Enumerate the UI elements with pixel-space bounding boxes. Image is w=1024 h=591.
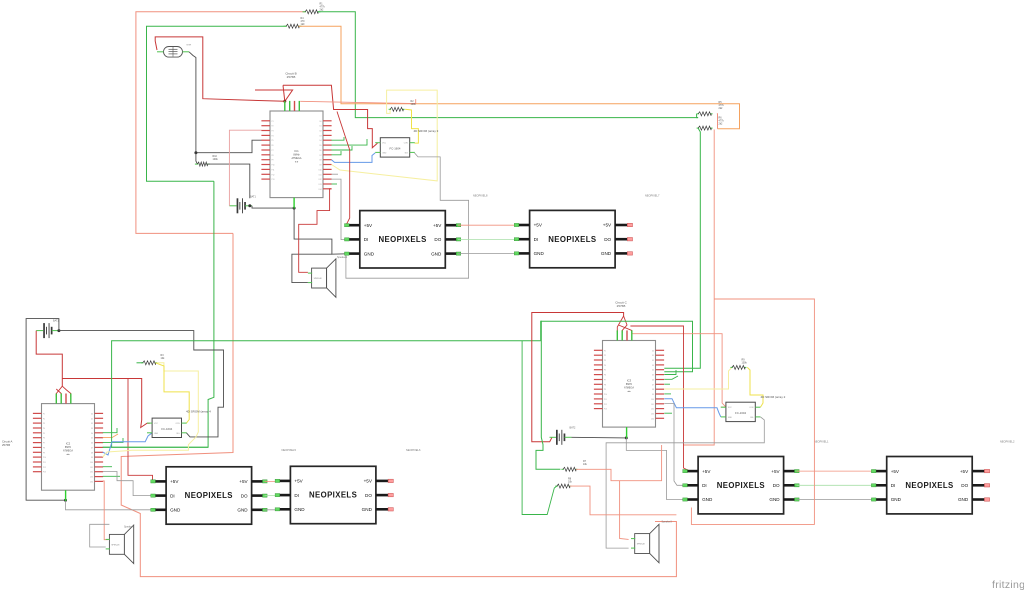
wire red IC2 area to module U3 VCC <box>62 379 150 428</box>
svg-text:MTR: MTR <box>187 45 192 47</box>
svg-text:P12: P12 <box>604 404 607 406</box>
svg-text:GND: GND <box>702 497 713 502</box>
svg-text:P10: P10 <box>272 165 275 167</box>
svg-text:D11: D11 <box>90 467 93 469</box>
svg-text:GND: GND <box>534 251 545 256</box>
svg-text:NEOPIXEL5: NEOPIXEL5 <box>282 448 297 452</box>
svg-text:SPKR-08: SPKR-08 <box>111 544 119 546</box>
svg-text:ATMEGA: ATMEGA <box>63 449 73 452</box>
wire red crossing diagonals at IC1 top pins <box>283 85 285 101</box>
svg-text:P3: P3 <box>272 131 274 133</box>
svg-text:P10: P10 <box>43 457 46 459</box>
svg-text:+5V: +5V <box>891 469 900 474</box>
svg-text:GND: GND <box>728 417 733 419</box>
svg-text:IC2: IC2 <box>66 441 71 445</box>
svg-text:DO: DO <box>365 493 372 498</box>
wires NEOPIXELS chain 1-2 <box>458 224 529 226</box>
wire salmon long vertical right side <box>684 130 715 446</box>
NEOPIXELS N4 <box>290 466 376 523</box>
svg-text:D2: D2 <box>652 360 654 362</box>
svg-text:2576B: 2576B <box>287 75 296 79</box>
svg-text:D0: D0 <box>91 413 93 415</box>
svg-text:ATMEGA: ATMEGA <box>624 386 634 389</box>
svg-text:D6: D6 <box>319 150 321 152</box>
svg-text:DO: DO <box>434 237 441 242</box>
svg-text:FC-1604: FC-1604 <box>390 146 401 150</box>
svg-text:DI: DI <box>891 483 896 488</box>
svg-text:D11: D11 <box>319 174 322 176</box>
wire green mid-long into R5 <box>697 114 699 118</box>
svg-text:GND: GND <box>154 433 159 435</box>
resistor R8 <box>555 485 558 487</box>
NEOPIXELS N6 <box>887 457 973 514</box>
svg-text:D10: D10 <box>319 169 322 171</box>
wire green IC1 right spurs <box>332 137 345 140</box>
svg-text:+5V: +5V <box>771 469 780 474</box>
svg-text:GND: GND <box>170 508 181 513</box>
resistor R10 <box>195 163 199 165</box>
svg-text:Speaker3: Speaker3 <box>662 521 673 524</box>
wire gray from R10 to battery BAT1 <box>207 164 249 198</box>
wire black battery BAT2 to IC3 ground pin <box>572 436 627 439</box>
svg-text:DI: DI <box>364 237 369 242</box>
wire red IC1 to speaker SP1 <box>299 189 332 272</box>
wire yellow IC3 to resistor R9 <box>664 367 732 389</box>
svg-text:P6: P6 <box>604 375 606 377</box>
svg-text:D1: D1 <box>91 418 93 420</box>
resistor R7 <box>561 468 564 470</box>
svg-text:P7: P7 <box>272 150 274 152</box>
wire blue IC1 to module U2 <box>332 153 376 163</box>
svg-text:DO: DO <box>773 483 780 488</box>
wire salmon loop around NEOPIXELS5 <box>691 299 814 524</box>
svg-text:P8: P8 <box>604 384 606 386</box>
wire gray left border to NEOPIXELS3 GND <box>66 500 152 510</box>
svg-text:2k2: 2k2 <box>320 9 325 12</box>
wire red IC3 top row right <box>630 326 690 471</box>
resistor R5 right pair top <box>697 113 700 115</box>
svg-text:DI: DI <box>294 493 299 498</box>
svg-text:+5V: +5V <box>702 469 711 474</box>
svg-text:D14: D14 <box>90 481 93 483</box>
svg-text:2576B: 2576B <box>2 443 10 447</box>
svg-text:NEOPIXELS: NEOPIXELS <box>309 491 357 500</box>
wire gray module U5 SIG to speaker SP3 <box>606 417 764 548</box>
speaker SP2 <box>109 534 124 554</box>
svg-text:2576B: 2576B <box>617 304 626 308</box>
svg-text:D2: D2 <box>319 131 321 133</box>
svg-text:CON: CON <box>749 407 754 409</box>
svg-text:BAT1: BAT1 <box>250 196 256 199</box>
module U2 <box>380 138 409 157</box>
wire yellow R2 to module CON <box>405 109 418 143</box>
svg-text:P13: P13 <box>272 179 275 181</box>
svg-text:D0: D0 <box>319 121 321 123</box>
svg-text:D3: D3 <box>91 428 93 430</box>
wire yellow R9 to module U5 CON <box>747 367 763 407</box>
svg-text:D5: D5 <box>91 438 93 440</box>
svg-text:D5: D5 <box>319 145 321 147</box>
svg-text:2k2: 2k2 <box>719 123 724 126</box>
svg-text:P6: P6 <box>272 145 274 147</box>
wire green long from R6 down to IC3 <box>664 128 700 368</box>
svg-text:fritzing: fritzing <box>992 579 1024 591</box>
svg-text:P1: P1 <box>43 413 45 415</box>
svg-text:NEOPIXEL6: NEOPIXEL6 <box>406 448 421 452</box>
NEOPIXELS N5 <box>698 457 784 514</box>
svg-text:D10: D10 <box>90 462 93 464</box>
svg-text:4D SROM (array 2: 4D SROM (array 2 <box>761 395 786 399</box>
svg-text:P11: P11 <box>43 462 46 464</box>
svg-text:NEOPIXELS: NEOPIXELS <box>185 491 233 500</box>
svg-text:4D SROM (array 3: 4D SROM (array 3 <box>414 129 439 133</box>
resistor R9 <box>730 366 733 368</box>
svg-text:P9: P9 <box>272 160 274 162</box>
resistor R2 <box>389 108 392 110</box>
svg-text:+5V: +5V <box>960 469 969 474</box>
svg-text:FC-1604: FC-1604 <box>161 427 172 431</box>
svg-text:100k: 100k <box>213 158 219 161</box>
wire black ground net to speaker and NEOPIXELS GND <box>294 208 346 254</box>
wire green loop up to cross link <box>112 341 541 447</box>
svg-text:ATMEGA: ATMEGA <box>292 157 302 160</box>
svg-text:◄►: ◄► <box>627 390 631 393</box>
svg-text:D12: D12 <box>319 179 322 181</box>
wire yellow IC1 sloped to module net <box>332 90 438 181</box>
svg-text:DO: DO <box>604 237 611 242</box>
resistor R1 <box>303 11 307 13</box>
svg-text:Speaker2: Speaker2 <box>124 526 135 529</box>
svg-text:P2: P2 <box>604 355 606 357</box>
svg-text:FC-1604: FC-1604 <box>735 411 746 415</box>
wire salmon long from IC1 top to right resistor pair <box>300 99 416 104</box>
wire black battery BAT1 to IC1 ground pin <box>252 206 294 208</box>
svg-text:P11: P11 <box>272 169 275 171</box>
svg-text:D9: D9 <box>91 457 93 459</box>
wire salmon IC3 top to module U5 VCC <box>633 334 726 407</box>
wire orange R1 feed from left edge <box>136 12 305 234</box>
svg-text:100k: 100k <box>411 103 417 106</box>
svg-text:D2: D2 <box>91 423 93 425</box>
wire black from motor to IC1 pin <box>189 52 262 153</box>
svg-text:P7: P7 <box>604 380 606 382</box>
wire orange R5 to R6 link <box>716 114 719 129</box>
svg-text:D4: D4 <box>91 433 93 435</box>
svg-text:Speaker1: Speaker1 <box>337 256 348 259</box>
wire yellow R3 to module U3 CON <box>155 363 189 423</box>
svg-text:DI: DI <box>702 483 707 488</box>
svg-text:+5V: +5V <box>603 223 612 228</box>
svg-text:D0: D0 <box>652 350 654 352</box>
svg-text:NEOPIXEL7: NEOPIXEL7 <box>645 194 660 198</box>
svg-text:P3: P3 <box>43 423 45 425</box>
svg-text:D11: D11 <box>651 404 654 406</box>
wire green R4 feed from left edge <box>147 26 287 181</box>
motor M1 <box>164 47 183 58</box>
wire red crossing diagonals at IC2 top pins <box>56 386 62 397</box>
wire red to NEOPIXELS1 +5V <box>337 112 350 226</box>
wires NEOPIXELS chain 5-6 <box>797 470 886 472</box>
svg-text:D1: D1 <box>652 355 654 357</box>
svg-text:IC1: IC1 <box>294 149 299 153</box>
wire green IC3 right spurs <box>664 370 676 375</box>
battery BAT3 <box>43 323 45 338</box>
svg-text:P5: P5 <box>272 140 274 142</box>
svg-text:+5V: +5V <box>170 479 179 484</box>
resistor R6 right pair bottom <box>697 127 700 129</box>
svg-text:P12: P12 <box>43 467 46 469</box>
motor M1 loop red wire <box>155 37 285 101</box>
svg-text:CON: CON <box>404 143 409 145</box>
svg-text:GND: GND <box>294 507 305 512</box>
svg-text:D3: D3 <box>319 135 321 137</box>
svg-text:+5V: +5V <box>239 479 248 484</box>
svg-text:NEOPIXELS: NEOPIXELS <box>378 235 426 244</box>
svg-text:NEOPIXEL2: NEOPIXEL2 <box>1000 439 1015 443</box>
svg-text:+5V: +5V <box>433 223 442 228</box>
svg-text:DO: DO <box>241 493 248 498</box>
svg-text:◄►: ◄► <box>66 453 70 456</box>
wire orange from R4 to right resistors <box>299 26 740 129</box>
wire red battery BAT3 to IC2 top <box>36 331 62 387</box>
svg-text:P13: P13 <box>604 409 607 411</box>
svg-text:D4: D4 <box>652 370 654 372</box>
svg-text:GND: GND <box>601 251 612 256</box>
wire gray IC2 to NEOPIXELS3 DI <box>103 472 152 496</box>
svg-text:P3: P3 <box>604 360 606 362</box>
svg-text:D6: D6 <box>91 443 93 445</box>
wire red loop around IC3 <box>532 313 624 442</box>
svg-text:GND: GND <box>891 497 902 502</box>
svg-text:NEOPIXELS: NEOPIXELS <box>548 235 596 244</box>
svg-text:D13: D13 <box>319 184 322 186</box>
svg-text:D9: D9 <box>319 165 321 167</box>
svg-text:P10: P10 <box>604 394 607 396</box>
resistor R3 <box>141 362 144 364</box>
svg-text:D7: D7 <box>319 155 321 157</box>
svg-text:P11: P11 <box>604 399 607 401</box>
wire black battery BAT3 left border to IC2 ground <box>26 319 65 501</box>
svg-text:NEOPIXEL8: NEOPIXEL8 <box>473 194 488 198</box>
wire gray ground to NEOPIXELS5 GND <box>626 438 684 500</box>
svg-text:D6: D6 <box>652 380 654 382</box>
IC U1 <box>270 111 323 198</box>
svg-text:P12: P12 <box>272 174 275 176</box>
NEOPIXELS N2 <box>530 210 616 267</box>
svg-text:P1: P1 <box>272 121 274 123</box>
svg-text:D3: D3 <box>652 365 654 367</box>
svg-text:GND: GND <box>769 497 780 502</box>
wire red loop around IC1 top <box>283 85 378 148</box>
svg-text:DI: DI <box>534 237 539 242</box>
svg-text:GND: GND <box>382 152 387 154</box>
svg-text:BAT2: BAT2 <box>570 427 576 430</box>
wire orange long vertical to bottom net <box>121 233 676 576</box>
svg-text:P9: P9 <box>604 389 606 391</box>
svg-text:D14: D14 <box>319 189 322 191</box>
wire black junction to resistor R10 <box>196 153 198 164</box>
wire blue IC3 to module U5 <box>664 399 721 417</box>
speaker SP3 <box>635 534 650 554</box>
wire green IC2 right spurs <box>103 428 117 433</box>
svg-text:+5V: +5V <box>534 223 543 228</box>
resistor R4 <box>284 25 288 27</box>
svg-text:D9: D9 <box>652 394 654 396</box>
svg-text:P8: P8 <box>43 447 45 449</box>
wire blue IC2 to module U3 <box>103 433 152 455</box>
svg-text:P13: P13 <box>43 472 46 474</box>
svg-text:D10: D10 <box>651 399 654 401</box>
svg-text:P5: P5 <box>43 433 45 435</box>
wire green long row to module area <box>103 446 208 448</box>
wire red to NEOPIXELS3 +5V <box>128 379 153 482</box>
svg-text:P7: P7 <box>43 443 45 445</box>
svg-text:+5V: +5V <box>294 479 303 484</box>
svg-text:D8: D8 <box>319 160 321 162</box>
wire red crossing diagonals at IC3 top pins <box>617 316 623 332</box>
svg-text:P9: P9 <box>43 452 45 454</box>
svg-text:GND: GND <box>431 251 442 256</box>
wire green cross link into IC3 top <box>541 321 693 371</box>
wire green branch to R8 left <box>522 341 557 515</box>
svg-text:GND: GND <box>958 497 969 502</box>
svg-text:D13: D13 <box>651 414 654 416</box>
svg-text:NEOPIXELS: NEOPIXELS <box>905 481 953 490</box>
svg-text:P5: P5 <box>604 370 606 372</box>
svg-text:SPKR-08: SPKR-08 <box>314 278 322 280</box>
wire green R3 left <box>137 362 143 364</box>
NEOPIXELS N1 <box>360 211 446 268</box>
svg-text:P2: P2 <box>272 126 274 128</box>
svg-text:D12: D12 <box>90 472 93 474</box>
svg-text:NEOPIXEL1: NEOPIXEL1 <box>814 439 829 443</box>
svg-text:4D SROM (array 4: 4D SROM (array 4 <box>186 410 211 414</box>
wire gray speaker SP2 loop <box>90 524 110 547</box>
svg-text:NEOPIXELS: NEOPIXELS <box>717 481 765 490</box>
svg-text:IC3: IC3 <box>627 378 632 382</box>
svg-text:D14: D14 <box>651 418 654 420</box>
wire gray IC3 to NEOPIXELS5 DI <box>664 404 684 486</box>
module U5 <box>726 402 755 421</box>
svg-text:D13: D13 <box>90 477 93 479</box>
IC U4 <box>42 404 95 491</box>
svg-text:P4: P4 <box>604 365 606 367</box>
svg-text:+5V: +5V <box>364 223 373 228</box>
svg-text:D8: D8 <box>91 452 93 454</box>
svg-text:CON: CON <box>176 423 181 425</box>
svg-text:GND: GND <box>237 508 248 513</box>
IC U6 <box>603 341 656 428</box>
wires NEOPIXELS chain 3-4 <box>265 480 290 482</box>
svg-text:+5V: +5V <box>364 479 373 484</box>
svg-text:P4: P4 <box>43 428 45 430</box>
module U3 <box>152 418 181 437</box>
svg-text:2k2: 2k2 <box>719 107 724 110</box>
svg-text:D1: D1 <box>319 126 321 128</box>
wire black battery BAT3 to module U3 SIG <box>59 331 224 437</box>
battery BAT2 <box>556 430 558 445</box>
wire red from battery BAT1 to IC1 left pin <box>229 130 261 206</box>
svg-text:DO: DO <box>961 483 968 488</box>
svg-text:D7: D7 <box>652 384 654 386</box>
svg-text:D4: D4 <box>319 140 321 142</box>
wire gray module U2 SIG to NEOPIXELS1 GND <box>346 153 469 278</box>
wire red IC2 to speaker SP2 <box>103 481 108 540</box>
svg-text:P1: P1 <box>604 350 606 352</box>
wire salmon R8 to orange loop <box>570 486 677 515</box>
svg-text:SPKR-08: SPKR-08 <box>637 544 645 546</box>
svg-text:P6: P6 <box>43 438 45 440</box>
svg-text:GND: GND <box>364 251 375 256</box>
svg-text:D7: D7 <box>91 447 93 449</box>
NEOPIXELS N3 <box>166 467 252 524</box>
wire green long vertical into circuit 2 <box>103 181 214 447</box>
svg-text:D5: D5 <box>652 375 654 377</box>
svg-text:1k0: 1k0 <box>301 23 306 26</box>
wire green from R1 down to long mid green <box>318 12 698 118</box>
svg-text:GND: GND <box>362 507 373 512</box>
speaker SP1 <box>312 268 327 288</box>
svg-text:P4: P4 <box>272 135 274 137</box>
battery BAT1 <box>237 198 239 213</box>
svg-text:DI: DI <box>170 493 175 498</box>
wire gray IC1 to NEOPIXELS1 DI <box>332 179 346 240</box>
svg-text:◄►: ◄► <box>294 160 298 163</box>
svg-text:100k: 100k <box>742 362 748 365</box>
svg-text:D8: D8 <box>652 389 654 391</box>
svg-text:P8: P8 <box>272 155 274 157</box>
svg-text:P2: P2 <box>43 418 45 420</box>
svg-text:D12: D12 <box>651 409 654 411</box>
wire yellow IC2 to module net <box>103 363 199 457</box>
wire salmon R7 to speaker and +5V net <box>576 445 662 481</box>
